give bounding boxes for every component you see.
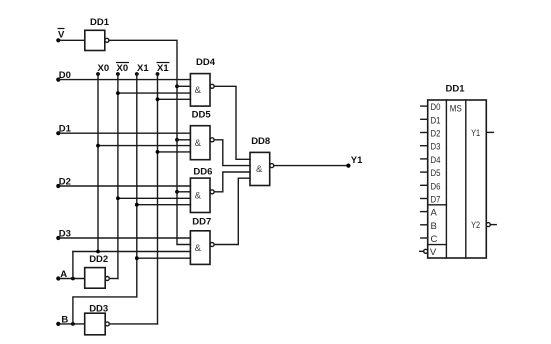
pin stub A <box>421 211 428 213</box>
svg-text:D3: D3 <box>431 142 441 153</box>
wire X1-bar to DD5 pin4 <box>158 151 191 153</box>
svg-text:Y1: Y1 <box>351 155 363 166</box>
svg-text:X1: X1 <box>137 63 149 74</box>
wire A up to DD7 pin3 row <box>72 252 74 279</box>
svg-text:B: B <box>61 314 68 325</box>
node V-bar input terminal <box>56 38 60 42</box>
svg-text:X0: X0 <box>98 63 110 74</box>
wire DD8 output to Y1 <box>274 165 349 167</box>
wire DD1 output to V rail <box>109 40 190 244</box>
node junction X0 DD7 <box>96 250 100 254</box>
wire DD4 output to DD8 pin1 <box>214 86 250 159</box>
IC block divider 1 <box>445 100 447 258</box>
svg-text:C: C <box>431 234 438 245</box>
svg-text:D2: D2 <box>59 176 71 187</box>
wire X1-bar rail <box>157 74 159 324</box>
svg-text:D0: D0 <box>59 70 71 81</box>
node B terminal <box>56 322 60 326</box>
wire D3 to DD7 <box>58 237 190 239</box>
wire V to DD4 pin2 <box>177 85 190 87</box>
svg-text:&: & <box>195 243 202 254</box>
svg-text:DD4: DD4 <box>196 57 216 68</box>
inverter DD2 <box>85 268 106 289</box>
pin stub D5 <box>421 171 428 173</box>
node A junction <box>71 277 75 281</box>
wire X1-bar to DD4 pin4 <box>158 98 191 100</box>
svg-text:DD1: DD1 <box>446 83 466 94</box>
node junction X1 DD6 <box>135 203 139 207</box>
node X1 top <box>135 72 139 76</box>
pin stub D4 <box>421 158 428 160</box>
node junction X0 DD5 <box>96 144 100 148</box>
gate DD6 <box>190 178 210 212</box>
svg-text:D0: D0 <box>431 102 441 113</box>
node A terminal <box>56 276 60 280</box>
wire X1 rail <box>136 74 138 297</box>
pin stub D2 <box>421 132 428 134</box>
inverter DD1 <box>85 30 105 50</box>
wire X1 to DD6 pin4 <box>137 204 191 206</box>
svg-text:D6: D6 <box>431 181 441 192</box>
wire DD7 output to DD8 pin4 <box>214 178 250 244</box>
pin stub D1 <box>421 118 428 120</box>
svg-text:D1: D1 <box>431 115 441 126</box>
svg-text:DD7: DD7 <box>192 216 211 227</box>
node D3 terminal <box>56 236 60 240</box>
wire D0 to DD4 <box>58 79 190 81</box>
wire D1 to DD5 <box>58 132 190 134</box>
pin stub D7 <box>421 198 428 200</box>
wire V to DD6 pin2 <box>177 191 190 193</box>
pin stub D3 <box>421 145 428 147</box>
node Y1 terminal <box>346 164 350 168</box>
gate DD4 <box>190 74 210 107</box>
pin stub Y1 output <box>486 131 493 133</box>
wire B up to X1 rail <box>73 297 137 324</box>
svg-text:DD1: DD1 <box>90 17 110 28</box>
svg-text:V: V <box>58 30 65 41</box>
wire DD5 output to DD8 pin2 <box>214 140 250 166</box>
gate DD7 <box>190 231 210 265</box>
IC block DD1 outer box <box>428 100 487 258</box>
node X0-bar top <box>116 72 120 76</box>
svg-text:Y2: Y2 <box>471 220 480 231</box>
svg-text:DD3: DD3 <box>89 303 108 314</box>
svg-text:DD2: DD2 <box>89 254 108 265</box>
IC block divider 2 <box>465 100 467 258</box>
pin stub V with bubble <box>420 250 424 252</box>
wire X0/A to DD7 pin3 <box>73 251 190 253</box>
node V junction DD5 <box>175 138 179 142</box>
pin stub B <box>421 224 428 226</box>
wire V to DD5 pin2 <box>177 139 190 141</box>
svg-text:DD8: DD8 <box>251 136 270 147</box>
wire X0 to DD5 pin3 <box>98 145 190 147</box>
node B junction <box>71 322 75 326</box>
svg-text:&: & <box>256 164 263 175</box>
wire X0-bar rail <box>117 74 119 279</box>
svg-text:D4: D4 <box>431 155 441 166</box>
node D1 terminal <box>56 131 60 135</box>
svg-text:B: B <box>431 221 437 232</box>
node D2 terminal <box>56 184 60 188</box>
svg-text:&: & <box>195 85 202 96</box>
wire X0-bar to DD4 pin3 <box>118 92 190 94</box>
svg-text:D5: D5 <box>431 168 441 179</box>
svg-text:A: A <box>431 208 438 219</box>
svg-text:&: & <box>195 191 202 202</box>
wire X1 to DD7 pin4 <box>137 257 191 259</box>
IC block separator above V <box>428 244 447 246</box>
node junction X0-bar DD4 <box>116 91 120 95</box>
wire V-bar to DD1 <box>58 39 85 41</box>
label X1-bar <box>157 63 170 75</box>
pin stub C <box>421 237 428 239</box>
node V junction DD6 <box>175 190 179 194</box>
node X0 top <box>96 72 100 76</box>
svg-text:X1: X1 <box>157 63 169 74</box>
wire DD2 output to X0-bar rail <box>109 278 118 280</box>
node junction X0-bar DD6 <box>116 196 120 200</box>
wire A to DD2 <box>58 278 84 280</box>
svg-text:V: V <box>430 247 437 258</box>
pin stub D6 <box>421 184 428 186</box>
inverter DD3 <box>85 313 106 335</box>
wire DD3 output to X1-bar rail <box>109 323 157 325</box>
svg-text:Y1: Y1 <box>471 128 480 139</box>
node junction X1 DD7 <box>135 256 139 260</box>
wire X0 rail <box>97 74 99 252</box>
node junction X1-bar DD5 <box>156 150 160 154</box>
node X1-bar top <box>156 72 160 76</box>
node D0 terminal <box>56 78 60 82</box>
svg-text:X0: X0 <box>117 63 129 74</box>
svg-text:MS: MS <box>450 104 462 115</box>
wire D2 to DD6 <box>58 185 190 187</box>
svg-text:D2: D2 <box>431 129 441 140</box>
node junction X1-bar DD4 <box>156 97 160 101</box>
label V-bar <box>58 29 66 41</box>
svg-text:DD5: DD5 <box>192 109 212 120</box>
svg-text:D3: D3 <box>59 228 71 239</box>
node V junction DD4 <box>175 84 179 88</box>
svg-text:&: & <box>195 138 202 149</box>
svg-text:D1: D1 <box>59 124 72 135</box>
label X0-bar <box>116 63 129 75</box>
wire DD6 output to DD8 pin3 <box>214 172 250 192</box>
svg-text:A: A <box>60 269 67 280</box>
IC block separator under D7 <box>428 204 447 206</box>
gate DD8 <box>250 152 270 185</box>
gate DD5 <box>190 126 210 160</box>
wire X0-bar to DD6 pin3 <box>118 197 190 199</box>
svg-text:D7: D7 <box>431 195 441 206</box>
svg-text:DD6: DD6 <box>193 166 212 177</box>
pin stub D0 <box>421 105 428 107</box>
pin stub Y2 output with bubble <box>486 223 490 227</box>
wire B to DD3 <box>58 323 84 325</box>
